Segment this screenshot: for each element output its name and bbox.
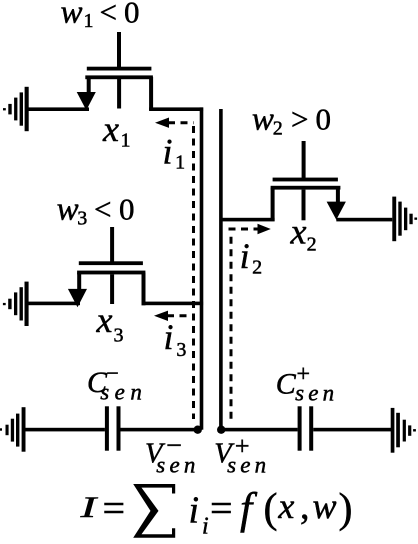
svg-text:0: 0 — [119, 192, 135, 227]
svg-text:2: 2 — [252, 256, 262, 278]
label i2 — [240, 236, 263, 278]
svg-text:1: 1 — [121, 130, 131, 152]
svg-text:w: w — [57, 192, 79, 228]
svg-text:0: 0 — [124, 0, 140, 30]
ground (M3 source) — [3, 282, 29, 326]
svg-text:i: i — [163, 131, 173, 171]
node Vsen+ (junction dot) — [217, 426, 225, 434]
summation sigma — [133, 484, 175, 538]
svg-text:3: 3 — [77, 208, 87, 230]
svg-text:x: x — [290, 212, 307, 252]
svg-text:sen: sen — [156, 453, 199, 478]
transistor M1 (w1, x1) — [77, 32, 153, 110]
capacitor Csen+ — [298, 406, 314, 450]
wire M3 drain to left rail — [142, 302, 204, 306]
svg-text:2: 2 — [273, 118, 283, 140]
svg-text:x: x — [277, 486, 294, 526]
svg-text:,: , — [300, 486, 310, 528]
wire bottom left (ground to Csen- to node Vsen-) — [25, 428, 197, 432]
svg-text:3: 3 — [176, 339, 186, 361]
svg-text:w: w — [61, 0, 83, 31]
ground (bottom right) — [391, 408, 416, 453]
svg-text:sen: sen — [295, 381, 338, 406]
label x1 — [102, 109, 131, 152]
ground (M1 source) — [3, 87, 29, 131]
svg-text:0: 0 — [316, 102, 332, 137]
label i3 — [164, 317, 187, 361]
wire M2 drain to ground — [336, 218, 392, 222]
wire right rail to M2 source — [221, 218, 275, 222]
svg-text:i: i — [189, 490, 200, 532]
ground (bottom left) — [0, 407, 26, 452]
current arrow i1 (dashed) — [168, 121, 194, 124]
svg-text:<: < — [94, 192, 111, 227]
svg-text:=: = — [210, 486, 233, 531]
label Vsen- — [145, 431, 200, 478]
label x2 — [290, 212, 317, 256]
wire ground to M3 source — [27, 302, 80, 306]
left rail Vsen- — [200, 107, 204, 429]
current arrow i3 (dashed) — [167, 314, 194, 317]
svg-text:>: > — [291, 102, 308, 137]
svg-text:i: i — [240, 236, 250, 276]
dashed current rail (i1/i3) — [192, 126, 195, 419]
svg-text:1: 1 — [84, 10, 94, 32]
wire ground to M1 source — [27, 107, 89, 111]
ground (M2 drain) — [392, 197, 417, 242]
svg-text:i: i — [164, 317, 174, 357]
svg-text:C: C — [276, 368, 297, 401]
label Csen+ — [276, 362, 339, 406]
svg-text:): ) — [339, 486, 353, 532]
wire bottom right (node Vsen+ to Csen+ to ground) — [221, 428, 392, 432]
label w3 < 0 — [57, 192, 135, 230]
svg-text:3: 3 — [114, 325, 124, 347]
svg-text:sen: sen — [227, 453, 270, 478]
svg-text:x: x — [96, 300, 113, 340]
label Vsen+ — [214, 431, 270, 477]
svg-text:1: 1 — [175, 152, 185, 174]
transistor M3 (w3, x3) — [68, 227, 146, 307]
current arrow i2 (dashed) — [229, 229, 259, 424]
capacitor Csen- — [105, 406, 121, 450]
label Csen- — [87, 361, 147, 405]
label w1 < 0 — [61, 0, 140, 32]
node Vsen- (junction dot) — [194, 426, 202, 434]
label i1 — [163, 131, 186, 173]
svg-text:sen: sen — [100, 380, 147, 405]
svg-text:<: < — [100, 0, 117, 30]
svg-text:(: ( — [264, 486, 278, 532]
svg-text:w: w — [252, 102, 274, 138]
label x3 — [96, 300, 124, 347]
svg-text:w: w — [313, 486, 337, 526]
svg-text:2: 2 — [307, 233, 317, 255]
label w2 > 0 — [252, 102, 331, 140]
right rail Vsen+ — [219, 109, 223, 430]
svg-text:=: = — [103, 486, 126, 531]
svg-text:x: x — [102, 109, 119, 149]
formula I = sum i_i = f(x,w) — [79, 484, 352, 540]
wire M1 drain to left rail — [149, 107, 203, 111]
transistor M2 (w2, x2) — [271, 141, 346, 221]
svg-text:i: i — [202, 514, 209, 540]
